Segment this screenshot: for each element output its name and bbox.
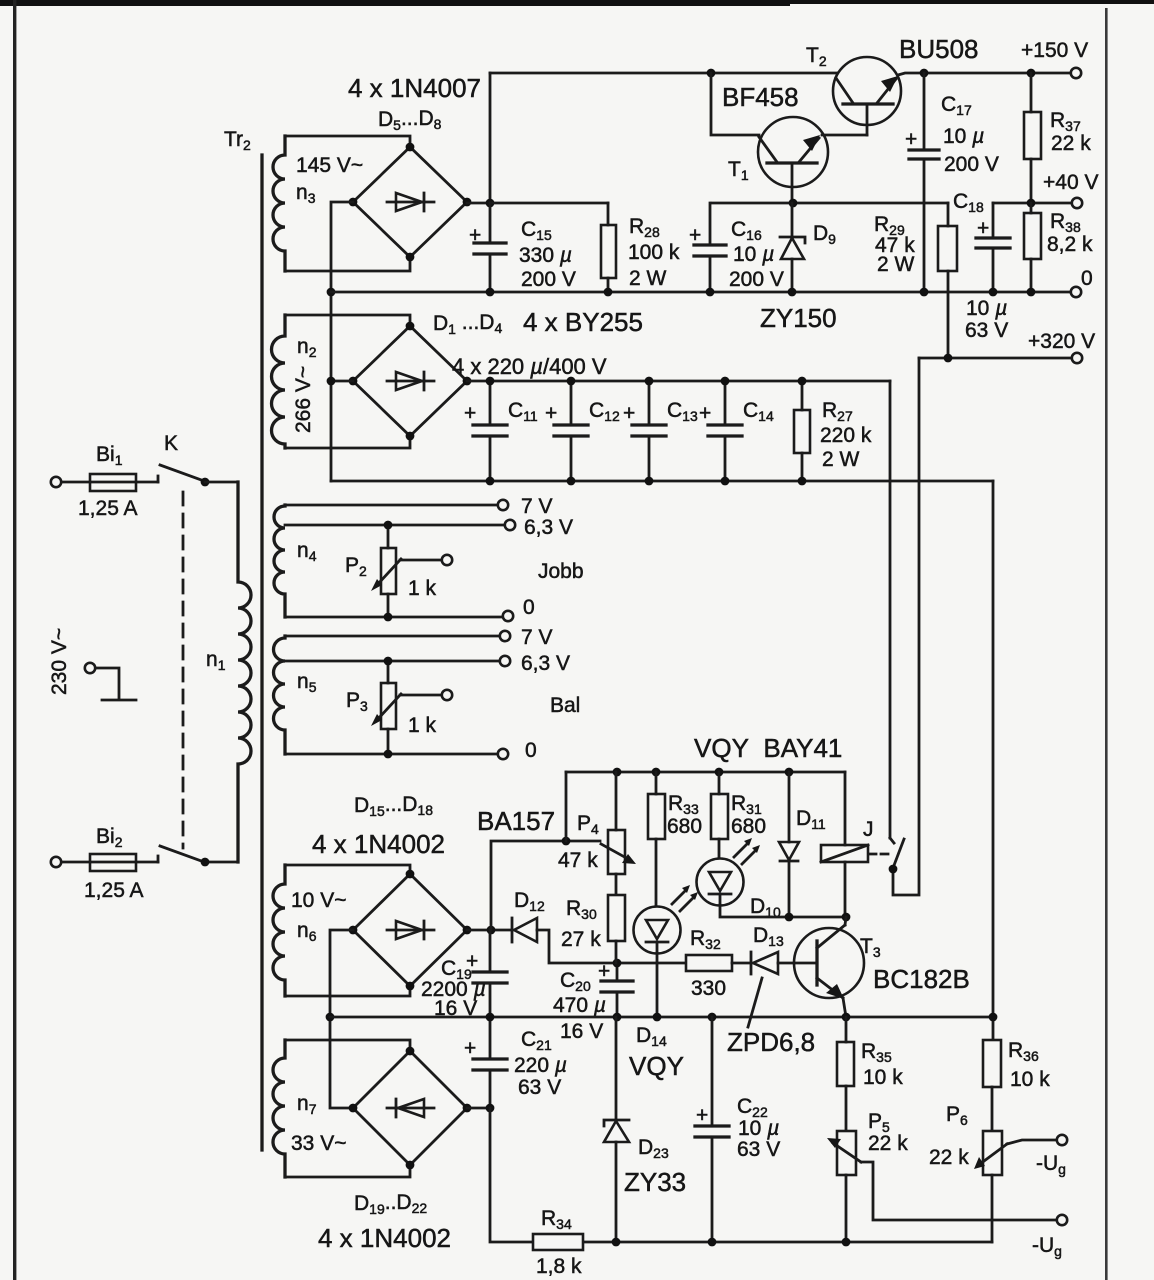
bridge rectifier D19-D22 diamond <box>353 1051 467 1165</box>
svg-text:4 x 1N4007: 4 x 1N4007 <box>348 73 481 103</box>
svg-text:BU508: BU508 <box>899 34 979 64</box>
wire low minus rail <box>330 1016 993 1019</box>
pot P3 body <box>381 683 396 729</box>
wire +320V line <box>919 357 1070 360</box>
capacitor C21 <box>489 1017 492 1108</box>
wire n5 7V <box>285 635 499 638</box>
terminal 7V (n4) <box>498 500 508 510</box>
svg-text:266 V~: 266 V~ <box>292 366 315 433</box>
wire raw+ up to P4 wiper row <box>491 841 600 930</box>
svg-text:0: 0 <box>525 739 537 762</box>
svg-text:+40 V: +40 V <box>1043 171 1098 194</box>
svg-text:2 W: 2 W <box>822 448 860 471</box>
junction dots on vertical x=331 <box>327 288 336 297</box>
svg-text:+: + <box>469 224 481 247</box>
svg-text:220 µ: 220 µ <box>514 1054 567 1077</box>
node R37/R38/+40V <box>1027 199 1036 208</box>
svg-text:63 V: 63 V <box>965 319 1008 342</box>
svg-text:+: + <box>464 1037 476 1060</box>
fuse Bi2 terminal <box>51 857 61 867</box>
zener diode D23 ZY33 <box>615 1017 618 1242</box>
bridge D15-D18 inner diode <box>387 921 434 939</box>
pot P4 wiper arrow <box>601 844 630 860</box>
wire top row to R28 <box>490 202 608 205</box>
svg-text:0: 0 <box>523 596 535 619</box>
transistor T1 BF458 <box>758 117 828 187</box>
node R29 to +320V <box>944 354 953 363</box>
svg-text:145 V~: 145 V~ <box>296 154 363 177</box>
LED D14 (VQY) <box>634 907 681 954</box>
capacitor C15 <box>489 203 492 292</box>
terminal 6,3V (n4) <box>505 520 515 530</box>
pot P2 wiper arrow <box>377 559 401 585</box>
switch Bi2 pivot dot <box>201 858 210 867</box>
LED D10 arrows <box>734 843 756 864</box>
wire to fuse Bi1 <box>62 481 158 484</box>
capacitor C12 <box>570 381 573 481</box>
resistor R34 <box>533 1234 583 1250</box>
svg-text:6,3 V: 6,3 V <box>521 652 570 675</box>
terminal 0 (n4) <box>503 611 513 621</box>
pot P4 body <box>608 830 625 874</box>
switch Bi2 contact tick <box>157 856 160 862</box>
pot P3 leads <box>387 661 390 754</box>
resistor R29 <box>938 226 957 271</box>
wire n5 6,3V tap <box>285 660 499 663</box>
svg-text:10 V~: 10 V~ <box>291 889 346 912</box>
wire bottom rail <box>583 1241 992 1244</box>
pot P2 junction dots <box>384 521 393 530</box>
pot P6 body <box>983 1131 1002 1175</box>
capacitor C22 <box>711 1017 714 1242</box>
wire bridge D5-D8 plus up to rail <box>467 73 490 203</box>
capacitor C17 <box>923 73 926 292</box>
wire +215V rail to T2 collector <box>490 72 837 75</box>
hook at relay fixed contact <box>890 838 894 843</box>
svg-text:1,25 A: 1,25 A <box>78 497 138 520</box>
svg-text:1,25 A: 1,25 A <box>84 879 144 902</box>
svg-text:10 µ: 10 µ <box>943 125 984 148</box>
relay switch lever <box>893 839 904 868</box>
svg-text:7 V: 7 V <box>521 495 553 518</box>
wire cap bank top rail <box>467 380 890 383</box>
bridge rectifier D5-D8 diamond <box>353 147 467 257</box>
svg-text:27 k: 27 k <box>561 928 601 951</box>
wire n6 plus row <box>467 929 512 932</box>
LED D14 cathode lead down <box>656 953 659 1017</box>
LED D14 arrows <box>672 890 694 911</box>
wire n7 plus row <box>467 1107 490 1110</box>
svg-text:ZY33: ZY33 <box>624 1167 686 1197</box>
wire C16/D9 top row <box>712 202 948 205</box>
svg-text:+320 V: +320 V <box>1028 330 1095 353</box>
pot P3 wiper wire <box>400 694 441 697</box>
svg-text:BA157: BA157 <box>477 806 555 836</box>
svg-text:22 k: 22 k <box>929 1146 969 1169</box>
wire D10 cathode to T3 collector node <box>720 905 846 917</box>
capacitor C14 <box>724 381 727 481</box>
node C20 top <box>613 959 622 968</box>
wire P6 wiper to -Ug upper <box>1007 1140 1056 1144</box>
terminal +150V <box>1071 68 1081 78</box>
capacitor C11 <box>489 381 492 481</box>
svg-text:6,3 V: 6,3 V <box>524 516 573 539</box>
svg-text:BC182B: BC182B <box>873 964 970 994</box>
switch Bi2 lever <box>160 846 204 862</box>
svg-text:10 µ: 10 µ <box>733 243 774 266</box>
capacitor C13 <box>648 381 651 481</box>
terminal P2 wiper <box>442 555 452 565</box>
svg-text:4 x 220 µ/400 V: 4 x 220 µ/400 V <box>452 354 607 379</box>
winding n3 <box>273 136 285 271</box>
zener diode D9 ZY150 <box>791 203 794 292</box>
winding n6 <box>273 865 285 996</box>
resistor R31 <box>711 794 728 839</box>
svg-text:22 k: 22 k <box>1051 132 1091 155</box>
terminal 7V (n5) <box>500 631 510 641</box>
wire +40V row <box>993 202 1070 205</box>
svg-text:7 V: 7 V <box>521 626 553 649</box>
resistor R32 <box>686 955 732 971</box>
page border right <box>1105 8 1108 1280</box>
pot P3 junction dots <box>384 657 393 666</box>
wire n7 top to bridge <box>285 1040 410 1051</box>
svg-text:+: + <box>699 402 711 425</box>
svg-text:10 µ: 10 µ <box>966 297 1007 320</box>
svg-text:4 x 1N4002: 4 x 1N4002 <box>312 829 445 859</box>
wire n7 bottom to bridge <box>285 1165 410 1177</box>
wire n1 bottom to Bi2 switch <box>205 861 238 864</box>
svg-text:63 V: 63 V <box>737 1138 780 1161</box>
primary winding n1 <box>238 482 251 862</box>
svg-text:ZPD6,8: ZPD6,8 <box>727 1027 815 1057</box>
bridge rectifier D15-D18 diamond <box>353 874 467 986</box>
diode D12 BA157 <box>511 918 514 942</box>
capacitor C20 <box>616 963 619 1017</box>
relay contact dashes <box>869 853 888 856</box>
svg-text:220 k: 220 k <box>820 424 872 447</box>
LED D10 (VQY) <box>697 859 744 906</box>
pot P2 wiper wire <box>400 559 441 562</box>
fuse Bi1 <box>90 474 136 491</box>
svg-text:2 W: 2 W <box>629 267 667 290</box>
svg-text:Jobb: Jobb <box>538 560 584 583</box>
svg-text:230 V~: 230 V~ <box>48 628 71 695</box>
wire n2 bottom to bridge <box>285 436 410 448</box>
wire n3 bridge minus to 0 rail <box>331 202 353 481</box>
node R37 top <box>1027 69 1036 78</box>
terminal 0 (n5) <box>498 749 508 759</box>
wire n6 bottom to bridge <box>285 986 410 996</box>
resistor R35 <box>837 1042 854 1086</box>
terminal +320V <box>1072 353 1082 363</box>
svg-text:8,2 k: 8,2 k <box>1047 233 1093 256</box>
svg-text:D5...D8: D5...D8 <box>378 107 442 133</box>
node C17 top <box>920 69 929 78</box>
wire raw HT down to relay contact <box>889 381 892 838</box>
page border left <box>13 0 16 1280</box>
svg-text:10 k: 10 k <box>1010 1068 1050 1091</box>
wire n6 top to bridge <box>285 865 410 874</box>
bridge D19-D22 vertex dots <box>349 1104 358 1113</box>
resistor R30 <box>608 895 625 941</box>
resistor R37 <box>1024 112 1041 159</box>
wire LED top rail <box>566 771 845 774</box>
svg-text:+: + <box>464 402 476 425</box>
switch K contact tick <box>157 476 160 482</box>
resistor R38 <box>1024 213 1041 259</box>
svg-text:100 k: 100 k <box>628 241 680 264</box>
svg-text:Bal: Bal <box>550 694 580 717</box>
svg-text:16 V: 16 V <box>560 1020 603 1043</box>
wire n3 bottom to bridge <box>285 257 410 271</box>
svg-text:22 k: 22 k <box>868 1132 908 1155</box>
terminal 0 <box>1071 287 1081 297</box>
node T1 base / D9 <box>789 199 798 208</box>
svg-text:+: + <box>905 128 917 151</box>
switch K pivot dot <box>201 478 210 487</box>
terminal +40V <box>1072 198 1082 208</box>
svg-text:+: + <box>696 1104 708 1127</box>
bridge rectifier D1-D4 diamond <box>353 326 467 436</box>
page border top bar <box>0 0 1154 4</box>
pot P6 leads <box>991 1175 994 1242</box>
bridge D15-D18 vertex dots <box>349 926 358 935</box>
wire T1 collector feed <box>711 73 759 135</box>
svg-text:4 x BY255: 4 x BY255 <box>523 307 643 337</box>
wire C21 bottom down to R34 <box>490 1108 533 1242</box>
wire +320V down to relay switch <box>893 358 919 895</box>
bridge D1-D4 inner diode <box>387 372 434 390</box>
transformer Tr2 core <box>260 155 263 1150</box>
wire n4 7V <box>285 504 497 507</box>
svg-text:200 V: 200 V <box>729 268 784 291</box>
pot P5 body <box>837 1131 856 1175</box>
svg-text:VQY BAY41: VQY BAY41 <box>694 733 842 763</box>
svg-text:330: 330 <box>691 977 726 1000</box>
wire up to LED rail <box>565 772 568 841</box>
zener diode D13 ZPD6,8 <box>750 952 753 974</box>
svg-text:+: + <box>689 224 701 247</box>
svg-text:+: + <box>623 402 635 425</box>
wire T2 emitter to +150V terminal <box>898 73 1070 75</box>
wire n6 bridge minus down to low rail <box>330 930 353 1108</box>
wire n2 bridge minus to vertical <box>331 380 353 383</box>
svg-text:33 V~: 33 V~ <box>291 1132 346 1155</box>
pot P5 wiper arrow <box>833 1143 861 1162</box>
fuse Bi2 <box>90 854 136 871</box>
wire cap bank bottom down to lower section <box>992 481 995 1040</box>
resistor R33 <box>648 794 665 839</box>
winding n2 <box>272 315 286 448</box>
wire to fuse Bi2 <box>62 861 158 864</box>
node rail feed <box>562 837 571 846</box>
wire 230V input <box>96 668 136 700</box>
node rail/T1 feed <box>707 69 716 78</box>
terminal -Ug lower <box>1057 1215 1067 1225</box>
svg-text:680: 680 <box>731 815 766 838</box>
relay J coil <box>821 845 868 862</box>
label ZPD6,8 with pointer <box>748 978 762 1027</box>
winding n7 <box>273 1040 285 1177</box>
wire n4 0 <box>285 616 502 619</box>
wire cap bank bottom rail <box>331 480 993 483</box>
terminal P3 wiper <box>442 690 452 700</box>
node C15 top <box>486 199 495 208</box>
svg-text:47 k: 47 k <box>558 849 598 872</box>
resistor R28 <box>601 225 616 278</box>
wire n4 6,3V tap <box>285 524 504 527</box>
svg-text:10 µ: 10 µ <box>738 1117 779 1140</box>
fuse Bi1 terminal <box>51 477 61 487</box>
wire n5 0 <box>285 753 497 756</box>
230V~ input terminal <box>85 663 95 673</box>
resistor R36 <box>983 1040 1001 1087</box>
svg-text:D1 ...D4: D1 ...D4 <box>433 311 502 337</box>
svg-text:10 k: 10 k <box>863 1066 903 1089</box>
svg-text:0: 0 <box>1081 267 1093 290</box>
svg-text:1 k: 1 k <box>408 577 437 600</box>
svg-text:330 µ: 330 µ <box>519 244 572 267</box>
svg-text:+: + <box>598 960 610 983</box>
svg-text:J: J <box>863 818 874 841</box>
svg-text:1,8 k: 1,8 k <box>536 1255 582 1278</box>
wire K to primary top <box>205 481 238 484</box>
svg-text:K: K <box>164 432 178 455</box>
bridge D5-D8 vertex dots <box>349 198 358 207</box>
svg-text:470 µ: 470 µ <box>553 994 606 1017</box>
svg-text:ZY150: ZY150 <box>760 303 837 333</box>
wire 0V rail <box>331 291 1070 294</box>
terminal 6,3V (n5) <box>500 656 510 666</box>
svg-text:2 W: 2 W <box>877 253 915 276</box>
winding n4 <box>274 505 285 617</box>
transistor T2 BU508 <box>833 57 901 125</box>
wire T1 emitter to T2 base <box>822 134 867 137</box>
svg-text:+: + <box>545 402 557 425</box>
capacitor C19 <box>489 930 492 1017</box>
svg-text:4 x 1N4002: 4 x 1N4002 <box>318 1223 451 1253</box>
pot P3 wiper arrow <box>377 694 401 720</box>
svg-text:200 V: 200 V <box>944 153 999 176</box>
bridge D5-D8 inner diode <box>387 193 434 211</box>
svg-text:+150 V: +150 V <box>1021 39 1088 62</box>
bridge D1-D4 vertex dots <box>349 377 358 386</box>
transistor T3 BC182B <box>794 928 864 998</box>
0V rail junction dots <box>486 288 495 297</box>
svg-text:680: 680 <box>667 815 702 838</box>
svg-text:BF458: BF458 <box>722 82 799 112</box>
svg-text:+: + <box>977 217 989 240</box>
terminal -Ug upper <box>1057 1135 1067 1145</box>
svg-text:VQY: VQY <box>629 1051 684 1081</box>
svg-text:1 k: 1 k <box>408 714 437 737</box>
svg-text:200 V: 200 V <box>521 268 576 291</box>
wire n3 top to bridge <box>285 136 410 147</box>
switch K lever <box>160 465 204 481</box>
pot P2 leads <box>387 525 390 617</box>
bridge D19-D22 inner diode (reversed) <box>387 1099 434 1117</box>
wire n2 top to bridge <box>285 315 410 326</box>
wire P5 wiper to -Ug lower <box>861 1162 1056 1220</box>
winding n5 <box>274 636 286 754</box>
pot P6 wiper arrow <box>980 1144 1007 1164</box>
dashed gang link K-Bi2 <box>182 492 185 848</box>
capacitor C16 <box>709 203 712 292</box>
resistor R27 <box>794 410 810 453</box>
pot P5 leads <box>845 1175 848 1242</box>
capacitor C18 <box>992 203 995 292</box>
diode D11 BAY41 <box>788 772 791 917</box>
pot P2 body <box>381 548 396 594</box>
svg-text:63 V: 63 V <box>518 1076 561 1099</box>
